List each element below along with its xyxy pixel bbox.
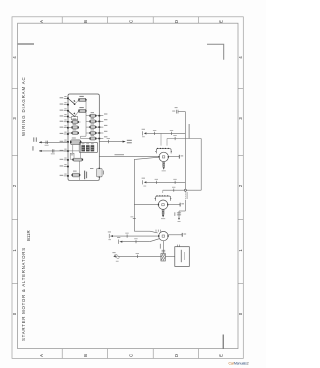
title text B11R <box>26 230 31 241</box>
pigtail connector node B <box>142 178 147 187</box>
connector above fusible link <box>162 250 166 252</box>
internal sensor box <box>70 153 74 159</box>
svg-text:STARTER MOTOR & ALTERNATORS: STARTER MOTOR & ALTERNATORS <box>21 247 26 341</box>
pigtail wire to G3 hat y236 <box>108 232 159 241</box>
relay K1 <box>69 96 87 105</box>
svg-text:B: B <box>83 20 88 23</box>
alternator G1 winding and ground <box>163 162 165 167</box>
alternator G2 winding and ground <box>162 209 164 214</box>
wire B horizontal y138 <box>167 135 201 140</box>
alternator G3 body <box>158 231 169 240</box>
internal bus wires <box>68 100 89 180</box>
svg-text:E: E <box>218 20 223 23</box>
svg-text:WIRING DIAGRAM AC: WIRING DIAGRAM AC <box>21 76 26 136</box>
wire fusible link to battery <box>163 250 174 257</box>
wire horizontal y182 <box>146 179 185 184</box>
title text STARTER MOTOR & ALTERNATORS <box>21 247 26 341</box>
pigtail wire to G3 y241 with diagonal <box>117 237 159 244</box>
wire 31 to block pin 8 <box>33 137 68 145</box>
alternator G2 left wire to junction <box>134 204 158 206</box>
ruler band separators <box>12 17 243 359</box>
wire 61 to block pin 9 <box>32 146 68 154</box>
svg-text:E: E <box>218 354 223 357</box>
svg-text:D: D <box>174 354 179 357</box>
battery <box>175 245 190 267</box>
inner drawing frame <box>18 23 238 348</box>
diode box <box>68 117 78 120</box>
alternator G3 down wire with label <box>160 241 164 250</box>
block left edge pins with labels <box>64 98 68 176</box>
svg-text:C: C <box>129 354 134 357</box>
wire from junction corner to G3 hat <box>134 231 157 233</box>
alternator G3 B+ wire and terminal <box>168 233 186 237</box>
title text WIRING DIAGRAM AC <box>21 76 26 136</box>
sub-module connectors <box>81 143 94 151</box>
alternator G1 B+ wire and terminal <box>168 155 183 159</box>
B+ chain below ring <box>174 191 187 222</box>
svg-text:B11R: B11R <box>26 230 31 241</box>
stub connector top right <box>172 107 185 113</box>
relay K3 wide <box>70 138 81 145</box>
power distribution unit block outline <box>68 94 99 180</box>
fuse F9 <box>72 171 81 177</box>
svg-text:A: A <box>39 354 44 357</box>
svg-text:CarManuals2: CarManuals2 <box>229 361 249 365</box>
pigtail connector node A <box>142 129 147 137</box>
junction from bus to G2 <box>130 157 158 231</box>
wire A horizontal y133 <box>146 130 185 135</box>
wire to cab from block right <box>99 138 132 143</box>
relay K2 <box>69 107 87 117</box>
ruler zone numbers 4-0 left and right <box>12 56 243 316</box>
vertical wire x185 with cable label <box>185 112 189 183</box>
fuse F8 <box>72 158 83 161</box>
watermark bottom-right <box>229 361 249 365</box>
svg-text:B: B <box>83 354 88 357</box>
alternator G1 connector hat <box>155 148 172 154</box>
svg-text:D: D <box>174 20 179 23</box>
sub-module box <box>79 142 97 152</box>
ground feed wire y256 <box>112 252 160 261</box>
fuses left column F1 F2 F3 <box>68 118 79 134</box>
fold tick mark bottom-right <box>222 335 224 349</box>
riser from G2 hat to y190 wire <box>162 190 164 193</box>
ruler zone letters A-E top and bottom <box>39 20 223 357</box>
alternator G3 hat marks <box>156 230 160 232</box>
block internal label <box>84 171 87 180</box>
revision mark line top-left <box>18 43 34 45</box>
alternator G2 body <box>158 200 169 209</box>
fusible link <box>161 254 166 262</box>
alternator G2 connector hat <box>155 195 172 201</box>
fold corner mark top-right <box>207 44 224 59</box>
alternator G1 body <box>158 152 169 161</box>
fuses right column F4-F7 with pins <box>89 112 107 140</box>
mega fuse on right edge <box>90 159 104 181</box>
vertical wire B down x201 <box>200 139 202 191</box>
svg-text:A: A <box>39 20 44 23</box>
alternator G2 B+ wire and terminal <box>168 203 184 207</box>
riser wires from G1 connector <box>161 133 167 145</box>
svg-text:C: C <box>129 20 134 23</box>
main bus wire block to alternator G1 <box>99 154 159 157</box>
wire horizontal y190 with ring junction <box>163 182 201 192</box>
outer border frame <box>12 17 243 359</box>
